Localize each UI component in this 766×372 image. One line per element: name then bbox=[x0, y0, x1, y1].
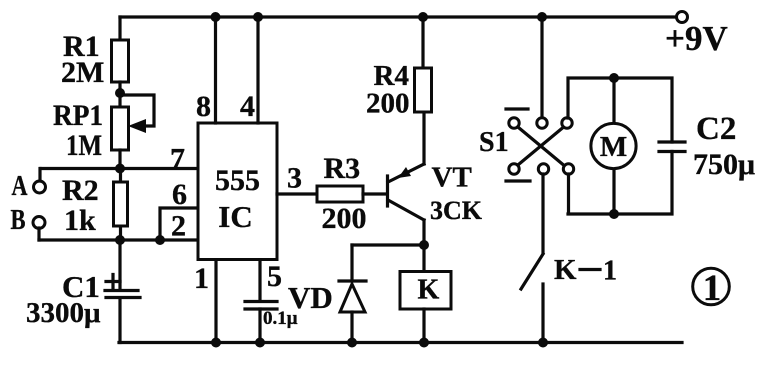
svg-text:+9V: +9V bbox=[665, 19, 728, 58]
wire pin 5 bbox=[260, 260, 282, 301]
svg-text:S1: S1 bbox=[479, 127, 509, 158]
svg-text:3: 3 bbox=[287, 162, 302, 195]
svg-text:5: 5 bbox=[267, 260, 282, 293]
wire pin 4 bbox=[240, 17, 258, 123]
resistor R4 200 bbox=[366, 17, 432, 120]
node junction dot pin8 on rail bbox=[211, 12, 221, 22]
wire pin 1 bbox=[194, 260, 221, 348]
terminal +9V bbox=[665, 12, 728, 59]
node dot motor bottom bbox=[609, 209, 619, 219]
svg-text:M: M bbox=[600, 131, 627, 163]
wire A up to pin7 line bbox=[38, 169, 41, 182]
svg-text:200: 200 bbox=[322, 202, 367, 235]
terminal A bbox=[12, 171, 46, 202]
svg-text:7: 7 bbox=[170, 143, 185, 176]
svg-text:R2: R2 bbox=[62, 174, 99, 207]
capacitor 0.1u on pin 5 bbox=[245, 302, 298, 348]
svg-text:6: 6 bbox=[172, 178, 187, 211]
wire bottom ground rail bbox=[119, 341, 682, 344]
svg-text:3CK: 3CK bbox=[430, 196, 483, 225]
resistor R2 1k bbox=[62, 169, 128, 241]
wire pin 2 line bbox=[39, 210, 198, 246]
svg-text:200: 200 bbox=[366, 88, 410, 120]
capacitor C2 750u bbox=[659, 111, 755, 181]
svg-text:2M: 2M bbox=[61, 56, 104, 89]
wire RP1 to pin7 line bbox=[118, 150, 121, 169]
wire from rail down to R1 bbox=[118, 17, 121, 40]
svg-text:VD: VD bbox=[288, 280, 333, 315]
svg-text:8: 8 bbox=[196, 90, 211, 123]
svg-text:A: A bbox=[12, 171, 29, 202]
node dot motor top bbox=[609, 73, 619, 83]
wire S1 down to K-1 switch bbox=[541, 174, 544, 253]
terminal B bbox=[11, 205, 46, 236]
svg-text:1: 1 bbox=[703, 268, 722, 309]
relay coil K bbox=[400, 245, 451, 348]
svg-text:RP1: RP1 bbox=[53, 99, 103, 132]
potentiometer RP1 1M bbox=[53, 95, 154, 162]
svg-text:K: K bbox=[418, 275, 440, 306]
wire rail down to S1 bbox=[540, 17, 543, 118]
transistor VT 3CK bbox=[388, 162, 483, 226]
svg-text:3300μ: 3300μ bbox=[26, 297, 101, 329]
svg-text:R3: R3 bbox=[324, 152, 361, 185]
wire pin 3 bbox=[277, 162, 317, 195]
wire motor loop bbox=[568, 78, 672, 214]
wire pin 7 line bbox=[41, 143, 198, 176]
node junction dot S1 on rail bbox=[537, 12, 547, 22]
svg-text:C2: C2 bbox=[696, 111, 736, 147]
wire pin 6 link bbox=[160, 178, 198, 240]
capacitor C1 3300u polarized bbox=[26, 240, 140, 343]
node junction dot R4 on rail bbox=[418, 12, 428, 22]
svg-text:B: B bbox=[11, 205, 26, 236]
node junction dot between R1 and RP1 bbox=[115, 82, 125, 107]
svg-text:4: 4 bbox=[240, 90, 255, 123]
svg-text:K: K bbox=[554, 254, 577, 286]
svg-text:555: 555 bbox=[215, 164, 260, 197]
switch S1 crossover bbox=[479, 109, 574, 181]
svg-text:750μ: 750μ bbox=[693, 148, 755, 181]
resistor R1 2M bbox=[61, 30, 129, 89]
figure number 1 circled bbox=[693, 268, 730, 309]
svg-text:VT: VT bbox=[432, 162, 472, 194]
svg-text:1: 1 bbox=[194, 262, 209, 295]
svg-text:1M: 1M bbox=[66, 129, 102, 162]
svg-text:1k: 1k bbox=[64, 204, 96, 237]
wire B down to pin2 line bbox=[37, 228, 40, 240]
svg-text:IC: IC bbox=[218, 199, 252, 234]
IC 555 timer bbox=[198, 123, 277, 260]
resistor R3 200 bbox=[317, 152, 367, 235]
wire pin 8 bbox=[196, 17, 216, 123]
wire collector down bbox=[422, 220, 425, 245]
wire top supply rail bbox=[120, 15, 676, 18]
svg-text:1: 1 bbox=[603, 256, 617, 287]
wire collector to diode top bbox=[352, 240, 429, 250]
switch K-1 blade bbox=[521, 254, 617, 348]
node junction dot pin4 on rail bbox=[253, 12, 263, 22]
wire R3 to base bbox=[363, 192, 386, 195]
motor M bbox=[591, 78, 636, 214]
svg-text:2: 2 bbox=[171, 210, 186, 243]
diode VD bbox=[288, 245, 366, 348]
wire emitter up to R4 bbox=[422, 112, 425, 164]
